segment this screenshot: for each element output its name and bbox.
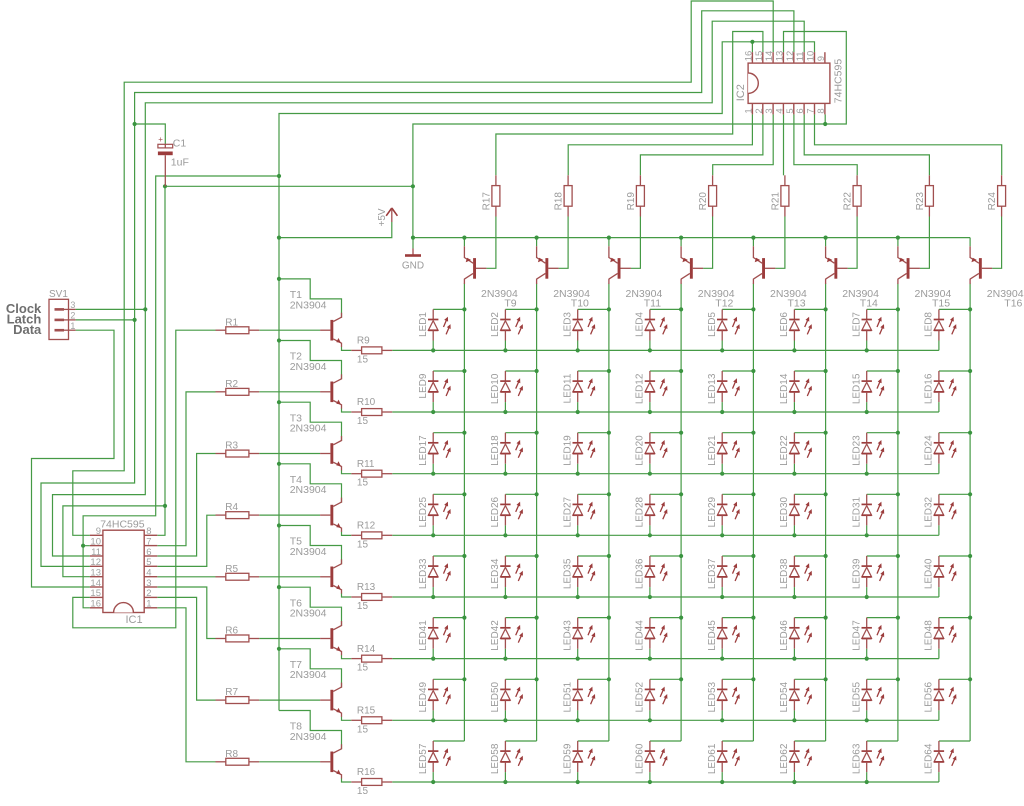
LED LED51 xyxy=(563,679,596,720)
wire GND stub IC2.8 xyxy=(824,114,826,124)
wire LED54 anode jog xyxy=(794,678,825,680)
wire IC2.7 to R24 xyxy=(815,114,1002,175)
svg-text:R9: R9 xyxy=(357,336,370,347)
wire LED58 anode jog xyxy=(505,740,536,742)
svg-text:1: 1 xyxy=(70,321,75,331)
wire R5 to T5 base xyxy=(259,576,320,578)
wire clock net IC2.11 to IC1.11 xyxy=(53,21,805,556)
wire LED48 anode jog xyxy=(939,617,970,619)
svg-text:LED60: LED60 xyxy=(635,743,646,774)
resistor R13 xyxy=(351,582,392,612)
wire LED row 3 line xyxy=(392,473,939,475)
wire LED29 anode jog xyxy=(722,493,753,495)
LED LED53 xyxy=(707,679,740,720)
wire T1 emitter to R9 xyxy=(342,347,352,351)
wire LED41 anode jog xyxy=(433,617,464,619)
LED LED54 xyxy=(779,679,812,720)
wire latch tap to C1 xyxy=(135,124,166,144)
wire +5V net IC2.10/16 top loop xyxy=(279,42,815,176)
wire +5V bus tap to T1 collector xyxy=(279,279,342,318)
svg-text:LED22: LED22 xyxy=(779,435,790,466)
wire LED row 7 line xyxy=(392,719,939,721)
wire IC1.3 to R6 xyxy=(157,587,215,639)
wire T14 emitter stub to rail xyxy=(825,238,827,247)
LED LED6 xyxy=(779,309,812,350)
wire LED43 anode jog xyxy=(578,617,609,619)
wire latch stub to SV1.2 xyxy=(76,319,135,321)
wire LED3 anode jog xyxy=(578,308,609,310)
LED LED32 xyxy=(924,494,957,535)
LED LED38 xyxy=(779,556,812,597)
LED LED42 xyxy=(490,618,523,659)
LED LED64 xyxy=(924,741,957,782)
wire LED column 4 vertical xyxy=(680,284,682,742)
wire LED23 anode jog xyxy=(867,432,898,434)
svg-text:4: 4 xyxy=(775,108,786,113)
svg-text:2N3904: 2N3904 xyxy=(290,484,327,496)
wire IC2.4 to R21 xyxy=(783,114,785,175)
LED LED36 xyxy=(635,556,668,597)
wire T8 emitter to R16 xyxy=(342,778,352,782)
svg-text:T14: T14 xyxy=(860,298,878,310)
op-amp IC2 74HC595 xyxy=(735,51,845,115)
wire LED20 anode jog xyxy=(650,432,681,434)
wire LED55 anode jog xyxy=(867,678,898,680)
svg-text:LED43: LED43 xyxy=(563,620,574,651)
wire LED59 anode jog xyxy=(578,740,609,742)
svg-text:LED32: LED32 xyxy=(924,496,935,527)
resistor R16 xyxy=(351,767,392,797)
wire clock stub to SV1.3 xyxy=(76,308,146,310)
wire LED64 anode jog xyxy=(939,740,970,742)
wire LED7 anode jog xyxy=(867,308,898,310)
svg-text:R18: R18 xyxy=(554,192,565,211)
svg-text:15: 15 xyxy=(357,724,369,735)
wire IC1.15 to R1 xyxy=(73,330,216,628)
svg-text:LED6: LED6 xyxy=(779,312,790,337)
LED LED26 xyxy=(490,494,523,535)
svg-text:15: 15 xyxy=(357,663,369,674)
LED LED22 xyxy=(779,433,812,474)
svg-text:1: 1 xyxy=(744,108,755,113)
svg-text:LED61: LED61 xyxy=(707,743,718,774)
wire LED33 anode jog xyxy=(433,555,464,557)
LED LED37 xyxy=(707,556,740,597)
svg-text:LED28: LED28 xyxy=(635,496,646,527)
resistor R15 xyxy=(351,705,392,735)
wire +5V bus tap to T4 collector xyxy=(279,464,342,503)
LED LED40 xyxy=(924,556,957,597)
wire LED column 6 vertical xyxy=(825,284,827,742)
wire +5V bus vertical xyxy=(278,176,280,711)
svg-text:LED3: LED3 xyxy=(563,312,574,337)
svg-text:LED18: LED18 xyxy=(490,435,501,466)
wire LED28 anode jog xyxy=(650,493,681,495)
transistor T9 xyxy=(464,246,518,309)
wire T15 base to R23 xyxy=(920,217,930,269)
wire +5V bus tap to T5 collector xyxy=(279,526,342,565)
transistor T1 xyxy=(290,289,342,347)
wire T2 emitter to R10 xyxy=(342,408,352,412)
wire LED8 anode jog xyxy=(939,308,970,310)
svg-text:LED29: LED29 xyxy=(707,496,718,527)
svg-text:LED35: LED35 xyxy=(563,558,574,589)
svg-text:R13: R13 xyxy=(357,582,376,593)
svg-text:LED15: LED15 xyxy=(852,373,863,404)
svg-text:15: 15 xyxy=(357,601,369,612)
wire T10 base to R18 xyxy=(559,217,569,269)
op-amp IC1 74HC595 xyxy=(90,518,157,626)
wire LED18 anode jog xyxy=(505,432,536,434)
ground symbol xyxy=(402,249,424,272)
svg-text:8: 8 xyxy=(816,108,827,113)
svg-text:LED2: LED2 xyxy=(490,312,501,337)
svg-text:15: 15 xyxy=(357,416,369,427)
svg-text:13: 13 xyxy=(775,51,786,62)
svg-text:LED24: LED24 xyxy=(924,435,935,466)
transistor T15 xyxy=(898,246,952,309)
svg-text:R23: R23 xyxy=(915,192,926,211)
LED LED48 xyxy=(924,618,957,659)
svg-text:16: 16 xyxy=(90,599,101,610)
LED LED61 xyxy=(707,741,740,782)
wire T16 base to R24 xyxy=(992,217,1002,269)
wire IC2.5 to R22 xyxy=(794,114,857,175)
wire LED36 anode jog xyxy=(650,555,681,557)
LED LED30 xyxy=(779,494,812,535)
wire GND branch to IC1.13 xyxy=(63,506,165,577)
svg-text:2N3904: 2N3904 xyxy=(290,731,327,743)
svg-text:LED10: LED10 xyxy=(490,373,501,404)
wire IC1.5 to R4 xyxy=(157,515,215,566)
LED LED63 xyxy=(852,741,885,782)
wire LED11 anode jog xyxy=(578,370,609,372)
svg-text:2N3904: 2N3904 xyxy=(290,299,327,311)
LED LED2 xyxy=(490,309,523,350)
svg-text:LED58: LED58 xyxy=(490,743,501,774)
+5V supply symbol xyxy=(377,208,397,227)
transistor T2 xyxy=(290,351,342,409)
svg-text:LED42: LED42 xyxy=(490,620,501,651)
svg-text:2N3904: 2N3904 xyxy=(290,608,327,620)
wire T11 base to R19 xyxy=(631,217,641,269)
svg-text:LED46: LED46 xyxy=(779,620,790,651)
svg-text:LED19: LED19 xyxy=(563,435,574,466)
wire LED column 7 vertical xyxy=(897,284,899,742)
svg-text:R14: R14 xyxy=(357,644,376,655)
wire LED column 8 vertical xyxy=(969,284,971,742)
svg-text:LED49: LED49 xyxy=(418,681,429,712)
resistor R12 xyxy=(351,520,392,550)
resistor R23 xyxy=(915,175,934,216)
wire +5V bus tap to T8 collector xyxy=(279,711,342,750)
svg-text:9: 9 xyxy=(816,56,827,61)
svg-text:LED50: LED50 xyxy=(490,681,501,712)
svg-text:T13: T13 xyxy=(788,298,806,310)
LED LED43 xyxy=(563,618,596,659)
LED LED25 xyxy=(418,494,451,535)
resistor R14 xyxy=(351,644,392,674)
svg-text:10: 10 xyxy=(90,536,101,547)
transistor T6 xyxy=(290,597,342,655)
wire LED46 anode jog xyxy=(794,617,825,619)
resistor R21 xyxy=(770,175,789,216)
wire T6 emitter to R14 xyxy=(342,655,352,659)
wire LED17 anode jog xyxy=(433,432,464,434)
wire +5V symbol stub xyxy=(279,222,392,238)
wire LED16 anode jog xyxy=(939,370,970,372)
svg-text:R19: R19 xyxy=(626,192,637,211)
svg-text:LED31: LED31 xyxy=(852,496,863,527)
LED LED4 xyxy=(635,309,668,350)
wire IC1.2 to R7 xyxy=(157,597,215,700)
wire +5V bus tap to T2 collector xyxy=(279,341,342,380)
svg-text:LED59: LED59 xyxy=(563,743,574,774)
LED LED41 xyxy=(418,618,451,659)
svg-text:LED16: LED16 xyxy=(924,373,935,404)
svg-text:IC2: IC2 xyxy=(735,84,747,101)
svg-text:LED9: LED9 xyxy=(418,373,429,398)
wire +5V pin16 stub xyxy=(751,42,753,52)
svg-text:T12: T12 xyxy=(715,298,733,310)
svg-text:2N3904: 2N3904 xyxy=(290,669,327,681)
resistor R20 xyxy=(698,175,717,216)
svg-text:LED38: LED38 xyxy=(779,558,790,589)
wire LED37 anode jog xyxy=(722,555,753,557)
svg-text:2N3904: 2N3904 xyxy=(290,423,327,435)
svg-text:LED52: LED52 xyxy=(635,681,646,712)
resistor R18 xyxy=(554,175,573,216)
svg-text:+: + xyxy=(158,135,163,144)
wire IC2.15 to R17 xyxy=(496,32,763,176)
LED LED1 xyxy=(418,309,451,350)
svg-text:2N3904: 2N3904 xyxy=(290,546,327,558)
wire LED14 anode jog xyxy=(794,370,825,372)
wire LED42 anode jog xyxy=(505,617,536,619)
transistor T11 xyxy=(609,246,663,309)
LED LED20 xyxy=(635,433,668,474)
LED LED50 xyxy=(490,679,523,720)
LED LED46 xyxy=(779,618,812,659)
transistor T8 xyxy=(290,721,342,779)
svg-text:R8: R8 xyxy=(225,749,238,760)
wire LED column 3 vertical xyxy=(608,284,610,742)
svg-text:R20: R20 xyxy=(698,192,709,211)
svg-text:R6: R6 xyxy=(225,626,238,637)
LED LED9 xyxy=(418,371,451,412)
LED LED8 xyxy=(924,309,957,350)
wire LED10 anode jog xyxy=(505,370,536,372)
wire LED row 4 line xyxy=(392,534,939,536)
svg-text:LED14: LED14 xyxy=(779,373,790,404)
svg-text:7: 7 xyxy=(806,108,817,113)
capacitor C1 xyxy=(158,135,189,186)
svg-text:T10: T10 xyxy=(571,298,589,310)
wire LED24 anode jog xyxy=(939,432,970,434)
connector SV1 xyxy=(49,289,76,340)
svg-text:LED51: LED51 xyxy=(563,681,574,712)
resistor R10 xyxy=(351,397,392,427)
LED LED62 xyxy=(779,741,812,782)
LED LED57 xyxy=(418,741,451,782)
wire IC2.2 to R19 xyxy=(640,114,763,175)
svg-text:R16: R16 xyxy=(357,767,376,778)
label Latch xyxy=(7,311,42,326)
wire GND symbol stub xyxy=(412,238,414,249)
svg-text:2N3904: 2N3904 xyxy=(290,361,327,373)
svg-text:LED11: LED11 xyxy=(563,373,574,403)
svg-text:T16: T16 xyxy=(1004,298,1022,310)
wire LED9 anode jog xyxy=(433,370,464,372)
resistor R5 xyxy=(216,564,260,580)
wire IC2.6 to R23 xyxy=(804,114,929,175)
LED LED11 xyxy=(563,371,596,412)
svg-text:LED23: LED23 xyxy=(852,435,863,466)
transistor T12 xyxy=(681,246,735,309)
wire LED56 anode jog xyxy=(939,678,970,680)
wire IC1.4 to R5 xyxy=(157,576,215,578)
transistor T7 xyxy=(290,659,342,717)
wire LED21 anode jog xyxy=(722,432,753,434)
LED LED15 xyxy=(852,371,885,412)
resistor R19 xyxy=(626,175,645,216)
wire IC1.7 to R2 xyxy=(157,392,215,546)
wire T4 emitter to R12 xyxy=(342,532,352,536)
svg-text:R2: R2 xyxy=(225,379,238,390)
svg-text:LED13: LED13 xyxy=(707,373,718,404)
wire R6 to T6 base xyxy=(259,638,320,640)
svg-text:SV1: SV1 xyxy=(49,289,68,300)
transistor T3 xyxy=(290,412,342,470)
svg-text:R15: R15 xyxy=(357,705,376,716)
LED LED16 xyxy=(924,371,957,412)
wire LED30 anode jog xyxy=(794,493,825,495)
wire LED39 anode jog xyxy=(867,555,898,557)
wire R1 to T1 base xyxy=(259,329,320,331)
LED LED60 xyxy=(635,741,668,782)
svg-text:R7: R7 xyxy=(225,687,238,698)
resistor R2 xyxy=(216,379,260,395)
LED LED33 xyxy=(418,556,451,597)
wire GND branch to C1/IC1 xyxy=(165,185,413,187)
svg-text:LED45: LED45 xyxy=(707,620,718,651)
svg-text:LED54: LED54 xyxy=(779,681,790,712)
wire LED5 anode jog xyxy=(722,308,753,310)
svg-text:GND: GND xyxy=(402,261,424,272)
svg-text:12: 12 xyxy=(90,557,101,568)
wire LED40 anode jog xyxy=(939,555,970,557)
LED LED55 xyxy=(852,679,885,720)
LED LED56 xyxy=(924,679,957,720)
svg-text:16: 16 xyxy=(744,51,755,62)
svg-text:11: 11 xyxy=(795,51,806,61)
wire LED1 anode jog xyxy=(433,308,464,310)
label Clock xyxy=(6,301,42,316)
svg-text:R5: R5 xyxy=(225,564,238,575)
svg-text:R17: R17 xyxy=(481,192,492,211)
wire LED49 anode jog xyxy=(433,678,464,680)
LED LED17 xyxy=(418,433,451,474)
wire LED47 anode jog xyxy=(867,617,898,619)
svg-text:LED63: LED63 xyxy=(852,743,863,774)
wire latch net IC2.12 to IC1.12 xyxy=(41,11,794,567)
wire T13 emitter stub to rail xyxy=(752,238,754,247)
wire LED12 anode jog xyxy=(650,370,681,372)
wire T14 base to R22 xyxy=(848,217,858,269)
svg-text:74HC595: 74HC595 xyxy=(100,518,145,530)
wire +5V bus tap to T3 collector xyxy=(279,402,342,441)
svg-text:5: 5 xyxy=(146,557,151,568)
wire GND net IC2.13/8 loop xyxy=(413,32,846,238)
wire T11 emitter stub to rail xyxy=(608,238,610,247)
svg-text:LED47: LED47 xyxy=(852,620,863,651)
wire LED51 anode jog xyxy=(578,678,609,680)
wire T16 emitter stub to rail xyxy=(969,238,971,247)
wire LED column 5 vertical xyxy=(752,284,754,742)
svg-text:LED4: LED4 xyxy=(635,312,646,337)
svg-text:LED21: LED21 xyxy=(707,435,718,466)
wire LED column 1 vertical xyxy=(463,284,465,742)
svg-text:LED48: LED48 xyxy=(924,620,935,651)
wire R8 to T8 base xyxy=(259,761,320,763)
transistor T13 xyxy=(753,246,807,309)
wire LED60 anode jog xyxy=(650,740,681,742)
svg-text:+5V: +5V xyxy=(377,208,388,226)
LED LED3 xyxy=(563,309,596,350)
wire IC1.1 to R8 xyxy=(157,608,215,762)
LED LED39 xyxy=(852,556,885,597)
LED LED5 xyxy=(707,309,740,350)
svg-text:LED36: LED36 xyxy=(635,558,646,589)
wire LED45 anode jog xyxy=(722,617,753,619)
wire T9 emitter stub to rail xyxy=(463,238,465,247)
svg-text:LED33: LED33 xyxy=(418,558,429,589)
resistor R22 xyxy=(843,175,862,216)
wire +5V bus tap to T7 collector xyxy=(279,649,342,688)
LED LED49 xyxy=(418,679,451,720)
wire LED row 6 line xyxy=(392,658,939,660)
svg-text:LED62: LED62 xyxy=(779,743,790,774)
svg-text:LED56: LED56 xyxy=(924,681,935,712)
svg-text:T9: T9 xyxy=(504,298,516,310)
wire LED62 anode jog xyxy=(794,740,825,742)
svg-text:15: 15 xyxy=(357,478,369,489)
wire R2 to T2 base xyxy=(259,391,320,393)
wire LED15 anode jog xyxy=(867,370,898,372)
LED LED58 xyxy=(490,741,523,782)
LED LED27 xyxy=(563,494,596,535)
wire T7 emitter to R15 xyxy=(342,717,352,721)
wire LED34 anode jog xyxy=(505,555,536,557)
wire +5V bus tap to T6 collector xyxy=(279,587,342,626)
wire T15 emitter stub to rail xyxy=(897,238,899,247)
wire LED63 anode jog xyxy=(867,740,898,742)
transistor T5 xyxy=(290,536,342,594)
svg-text:74HC595: 74HC595 xyxy=(833,59,845,104)
svg-text:LED53: LED53 xyxy=(707,681,718,712)
LED LED24 xyxy=(924,433,957,474)
wire LED13 anode jog xyxy=(722,370,753,372)
svg-text:LED30: LED30 xyxy=(779,496,790,527)
resistor R9 xyxy=(351,336,392,366)
wire T9 base to R17 xyxy=(486,217,496,269)
LED LED45 xyxy=(707,618,740,659)
wire LED19 anode jog xyxy=(578,432,609,434)
LED LED47 xyxy=(852,618,885,659)
wire LED38 anode jog xyxy=(794,555,825,557)
LED LED31 xyxy=(852,494,885,535)
LED LED12 xyxy=(635,371,668,412)
